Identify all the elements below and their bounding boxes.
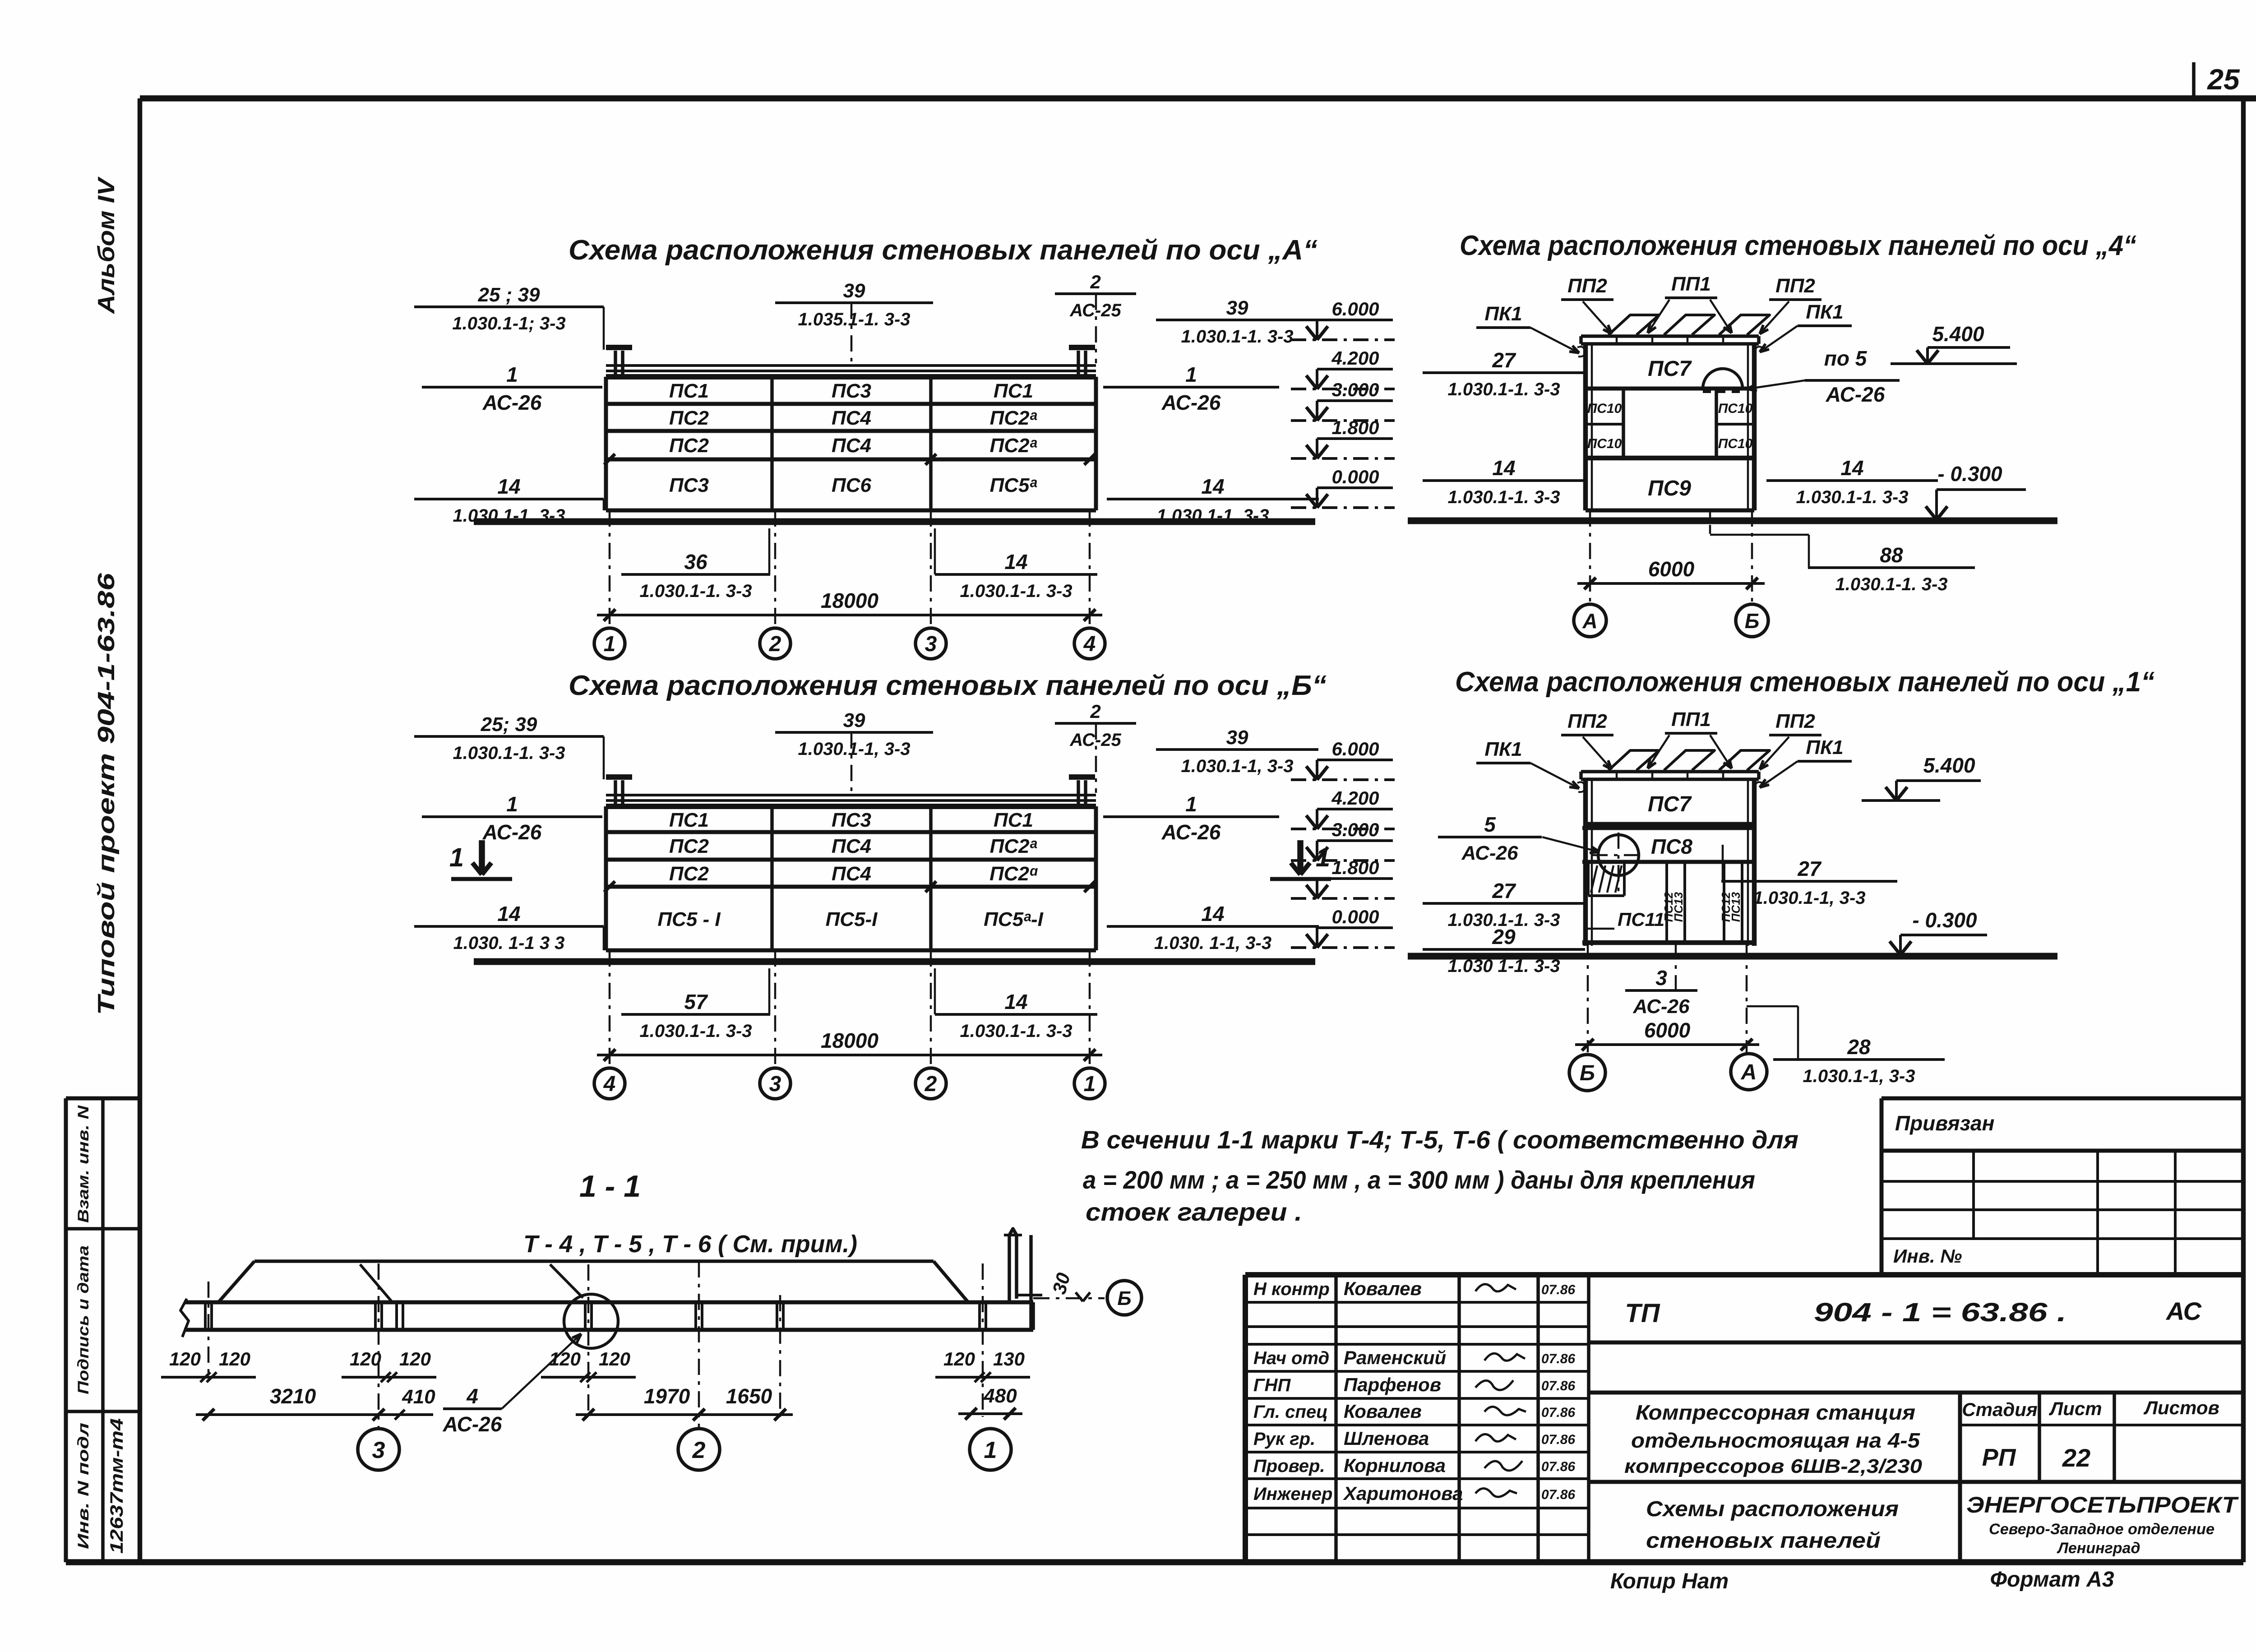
svg-text:А: А xyxy=(1582,609,1597,633)
svg-text:3: 3 xyxy=(372,1437,385,1463)
svg-text:4.200: 4.200 xyxy=(1331,787,1379,809)
svg-text:120: 120 xyxy=(943,1348,975,1370)
svg-text:ПС3: ПС3 xyxy=(832,809,871,831)
svg-text:1.030.1-1. 3-3: 1.030.1-1. 3-3 xyxy=(1181,327,1293,347)
svg-text:14: 14 xyxy=(1201,902,1224,925)
svg-text:120: 120 xyxy=(169,1348,201,1370)
svg-text:Гл. спец: Гл. спец xyxy=(1253,1402,1328,1422)
svg-text:АС-26: АС-26 xyxy=(1633,995,1690,1018)
svg-text:Схема расположения стеновых па: Схема расположения стеновых панелей по о… xyxy=(1460,230,2136,261)
svg-text:Северо-Западное отделение: Северо-Западное отделение xyxy=(1989,1521,2214,1538)
svg-text:Копир Нат: Копир Нат xyxy=(1610,1569,1729,1593)
svg-text:1.030.1-1, 3-3: 1.030.1-1, 3-3 xyxy=(798,739,910,759)
svg-text:120: 120 xyxy=(219,1348,250,1370)
svg-text:ПС3: ПС3 xyxy=(832,380,871,402)
svg-text:1 - 1: 1 - 1 xyxy=(579,1169,641,1203)
svg-text:Типовой проект 904-1-63.86: Типовой проект 904-1-63.86 xyxy=(93,573,120,1015)
svg-text:25; 39: 25; 39 xyxy=(481,713,537,736)
svg-text:4: 4 xyxy=(603,1072,616,1096)
svg-text:07.86: 07.86 xyxy=(1541,1282,1575,1297)
svg-text:ПС4: ПС4 xyxy=(832,863,871,885)
svg-text:14: 14 xyxy=(1201,475,1224,498)
svg-text:1.030.1-1, 3-3: 1.030.1-1, 3-3 xyxy=(1181,756,1293,776)
svg-text:Корнилова: Корнилова xyxy=(1344,1455,1446,1476)
svg-text:1.800: 1.800 xyxy=(1331,417,1379,438)
svg-text:3: 3 xyxy=(769,1072,781,1096)
svg-text:ПС2ᵃ: ПС2ᵃ xyxy=(990,835,1038,857)
svg-text:07.86: 07.86 xyxy=(1541,1487,1575,1502)
svg-text:1.030.1-1. 3-3: 1.030.1-1. 3-3 xyxy=(960,1021,1072,1041)
svg-text:Привязан: Привязан xyxy=(1895,1111,1994,1135)
svg-text:Н контр: Н контр xyxy=(1253,1279,1330,1299)
svg-text:07.86: 07.86 xyxy=(1541,1459,1575,1474)
svg-text:1.800: 1.800 xyxy=(1331,857,1379,878)
svg-text:Инв. N подл: Инв. N подл xyxy=(75,1423,92,1549)
svg-text:5.400: 5.400 xyxy=(1923,754,1975,777)
svg-text:1: 1 xyxy=(1084,1072,1096,1096)
svg-text:1.030.1-1. 3-3: 1.030.1-1. 3-3 xyxy=(453,506,565,526)
svg-text:480: 480 xyxy=(983,1385,1017,1407)
svg-text:1.030.1-1. 3-3: 1.030.1-1. 3-3 xyxy=(639,581,752,601)
svg-text:ПС1: ПС1 xyxy=(994,380,1033,402)
svg-text:1.030 1-1. 3-3: 1.030 1-1. 3-3 xyxy=(1447,956,1560,976)
svg-text:АС-26: АС-26 xyxy=(1826,383,1885,406)
svg-text:ГНП: ГНП xyxy=(1253,1375,1291,1395)
svg-text:36: 36 xyxy=(684,550,707,574)
svg-text:4: 4 xyxy=(1083,632,1096,656)
svg-text:2: 2 xyxy=(925,1072,937,1096)
svg-text:27: 27 xyxy=(1492,879,1516,902)
svg-text:6.000: 6.000 xyxy=(1331,738,1379,759)
svg-text:ПС1: ПС1 xyxy=(669,809,709,831)
svg-text:ПС1: ПС1 xyxy=(669,380,709,402)
svg-text:39: 39 xyxy=(843,709,865,731)
svg-text:ПС6: ПС6 xyxy=(832,474,871,496)
svg-text:ПС4: ПС4 xyxy=(832,435,871,457)
svg-text:ПС7: ПС7 xyxy=(1648,792,1692,816)
svg-text:ТП: ТП xyxy=(1625,1299,1660,1328)
svg-text:1.030.1-1. 3-3: 1.030.1-1. 3-3 xyxy=(1796,487,1908,507)
svg-text:стоек галереи .: стоек галереи . xyxy=(1086,1198,1302,1226)
svg-text:РП: РП xyxy=(1982,1444,2016,1471)
svg-text:ПС5ᵃ: ПС5ᵃ xyxy=(990,474,1038,496)
svg-text:12637тм-т4: 12637тм-т4 xyxy=(107,1418,127,1554)
svg-text:а = 200 мм ; а = 250 мм , а: а = 200 мм ; а = 250 мм , а = 300 мм ) д… xyxy=(1083,1166,1755,1194)
svg-text:ПС2ᵃ: ПС2ᵃ xyxy=(990,407,1038,429)
svg-text:29: 29 xyxy=(1492,925,1516,949)
svg-text:Харитонова: Харитонова xyxy=(1343,1483,1463,1504)
svg-text:ПК1: ПК1 xyxy=(1484,738,1522,760)
svg-text:Ковалев: Ковалев xyxy=(1344,1401,1422,1422)
svg-text:3210: 3210 xyxy=(270,1384,316,1408)
svg-text:Схема расположения стеновых: Схема расположения стеновых панелей по о… xyxy=(569,235,1318,266)
svg-text:ЭНЕРГОСЕТЬПРОЕКТ: ЭНЕРГОСЕТЬПРОЕКТ xyxy=(1966,1492,2239,1518)
svg-text:39: 39 xyxy=(1226,297,1248,319)
svg-text:2: 2 xyxy=(769,632,781,656)
svg-text:ПК1: ПК1 xyxy=(1806,301,1843,323)
svg-text:ПС2ᵃ: ПС2ᵃ xyxy=(990,435,1038,457)
svg-text:18000: 18000 xyxy=(821,589,878,612)
svg-text:Б: Б xyxy=(1745,609,1760,633)
svg-text:3.000: 3.000 xyxy=(1331,379,1379,400)
svg-text:39: 39 xyxy=(1226,727,1248,749)
svg-text:Стадия: Стадия xyxy=(1962,1399,2037,1420)
svg-text:- 0.300: - 0.300 xyxy=(1937,462,2002,486)
svg-text:3: 3 xyxy=(925,632,937,656)
svg-text:ПП2: ПП2 xyxy=(1567,275,1607,297)
svg-text:1.030. 1-1, 3-3: 1.030. 1-1, 3-3 xyxy=(1154,933,1271,953)
svg-text:130: 130 xyxy=(993,1348,1025,1370)
svg-text:АС-26: АС-26 xyxy=(482,820,542,844)
svg-text:ПС1: ПС1 xyxy=(994,809,1033,831)
svg-text:- 0.300: - 0.300 xyxy=(1912,908,1977,932)
svg-text:ПС2: ПС2 xyxy=(669,435,709,457)
svg-text:ПП1: ПП1 xyxy=(1671,273,1711,295)
svg-text:410: 410 xyxy=(402,1386,435,1408)
svg-text:1.030. 1-1 3 3: 1.030. 1-1 3 3 xyxy=(453,933,565,953)
svg-text:120: 120 xyxy=(599,1348,630,1370)
svg-text:14: 14 xyxy=(1840,456,1863,480)
svg-text:25 ; 39: 25 ; 39 xyxy=(478,284,541,306)
svg-text:ПС10: ПС10 xyxy=(1587,401,1622,416)
svg-text:ПК1: ПК1 xyxy=(1806,736,1843,759)
svg-text:Схема расположения стеновых: Схема расположения стеновых панелей по о… xyxy=(1455,666,2154,698)
svg-text:ПС5ᵃ-І: ПС5ᵃ-І xyxy=(984,908,1043,930)
svg-text:ПС5 - І: ПС5 - І xyxy=(657,908,721,930)
svg-text:Подпись и дата: Подпись и дата xyxy=(75,1245,92,1394)
svg-text:АС: АС xyxy=(2165,1297,2202,1325)
svg-text:88: 88 xyxy=(1880,543,1903,567)
svg-text:ПС7: ПС7 xyxy=(1648,357,1692,381)
svg-text:АС-26: АС-26 xyxy=(1461,842,1518,864)
svg-text:1: 1 xyxy=(449,843,464,872)
svg-text:Т - 4 , Т - 5 , Т - 6 ( См.: Т - 4 , Т - 5 , Т - 6 ( См. прим.) xyxy=(523,1231,857,1258)
svg-text:ПС13: ПС13 xyxy=(1729,892,1743,922)
svg-text:1650: 1650 xyxy=(726,1384,772,1408)
svg-text:904 - 1 = 63.86 .: 904 - 1 = 63.86 . xyxy=(1814,1298,2066,1327)
svg-text:ПС13: ПС13 xyxy=(1672,892,1685,922)
svg-text:0.000: 0.000 xyxy=(1331,466,1379,487)
svg-text:14: 14 xyxy=(497,902,520,925)
svg-text:1.030.1-1. 3-3: 1.030.1-1. 3-3 xyxy=(453,743,565,763)
svg-text:1.030.1-1. 3-3: 1.030.1-1. 3-3 xyxy=(639,1021,752,1041)
svg-text:ПК1: ПК1 xyxy=(1484,303,1522,325)
svg-text:ПП1: ПП1 xyxy=(1671,708,1711,731)
svg-text:ПС10: ПС10 xyxy=(1718,401,1753,416)
svg-text:1: 1 xyxy=(506,363,518,386)
svg-text:ПС4: ПС4 xyxy=(832,407,871,429)
svg-text:1.030.1-1; 3-3: 1.030.1-1; 3-3 xyxy=(452,314,565,333)
svg-text:Формат А3: Формат А3 xyxy=(1990,1568,2114,1592)
svg-text:07.86: 07.86 xyxy=(1541,1432,1575,1447)
svg-text:Лист: Лист xyxy=(2048,1398,2102,1419)
svg-text:ПС3: ПС3 xyxy=(669,474,709,496)
svg-text:Инженер: Инженер xyxy=(1253,1484,1332,1504)
svg-text:1.030.1-1, 3-3: 1.030.1-1, 3-3 xyxy=(1803,1066,1915,1086)
svg-text:ПП2: ПП2 xyxy=(1567,710,1607,732)
svg-text:ПС2: ПС2 xyxy=(669,407,709,429)
svg-text:АС-26: АС-26 xyxy=(1161,391,1221,414)
svg-text:ПС2ᵅ: ПС2ᵅ xyxy=(989,863,1038,885)
svg-text:3: 3 xyxy=(1655,966,1667,990)
svg-text:Компрессорная станция: Компрессорная станция xyxy=(1636,1401,1915,1424)
svg-text:1: 1 xyxy=(984,1437,997,1463)
svg-text:ПС2: ПС2 xyxy=(669,863,709,885)
svg-text:ПС5-І: ПС5-І xyxy=(826,908,878,930)
svg-text:2: 2 xyxy=(1090,701,1100,722)
svg-text:Б: Б xyxy=(1117,1287,1131,1310)
svg-text:Альбом ІV: Альбом ІV xyxy=(93,176,120,315)
svg-text:Взам. инв. N: Взам. инв. N xyxy=(75,1105,92,1223)
svg-text:1: 1 xyxy=(1185,363,1197,386)
svg-text:0.000: 0.000 xyxy=(1331,906,1379,927)
svg-text:АС-26: АС-26 xyxy=(482,391,542,414)
svg-text:А: А xyxy=(1741,1060,1757,1084)
svg-text:5: 5 xyxy=(1484,813,1496,836)
svg-text:1: 1 xyxy=(1185,792,1197,816)
svg-text:1.030.1-1. 3-3: 1.030.1-1. 3-3 xyxy=(1447,487,1560,507)
svg-text:22: 22 xyxy=(2062,1444,2090,1472)
svg-text:07.86: 07.86 xyxy=(1541,1405,1575,1420)
svg-text:1.035.1-1. 3-3: 1.035.1-1. 3-3 xyxy=(798,310,910,329)
svg-text:Рук гр.: Рук гр. xyxy=(1253,1429,1315,1449)
svg-text:ПП2: ПП2 xyxy=(1775,275,1815,297)
svg-text:Раменский: Раменский xyxy=(1344,1347,1446,1368)
svg-text:4.200: 4.200 xyxy=(1331,347,1379,369)
svg-text:Схемы расположения: Схемы расположения xyxy=(1646,1497,1899,1521)
svg-text:Инв. №: Инв. № xyxy=(1893,1245,1962,1267)
svg-text:В сечении 1-1 марки Т-4; Т-: В сечении 1-1 марки Т-4; Т-5, Т-6 ( соот… xyxy=(1081,1125,1798,1154)
svg-text:120: 120 xyxy=(399,1348,431,1370)
svg-text:14: 14 xyxy=(497,475,520,498)
svg-text:4: 4 xyxy=(466,1384,478,1408)
svg-text:28: 28 xyxy=(1847,1035,1871,1059)
svg-text:1: 1 xyxy=(604,632,616,656)
svg-text:Ковалев: Ковалев xyxy=(1344,1278,1422,1299)
svg-text:39: 39 xyxy=(843,280,865,302)
svg-text:ПС8: ПС8 xyxy=(1651,835,1692,858)
svg-text:1970: 1970 xyxy=(644,1384,690,1408)
svg-text:АС-26: АС-26 xyxy=(443,1412,502,1436)
svg-text:2: 2 xyxy=(1090,271,1100,292)
svg-text:по 5: по 5 xyxy=(1824,347,1868,370)
svg-text:6000: 6000 xyxy=(1644,1018,1691,1042)
svg-text:25: 25 xyxy=(2207,63,2240,96)
svg-text:1.030 1-1, 3-3: 1.030 1-1, 3-3 xyxy=(1156,506,1269,526)
svg-text:Схема расположения стеновых: Схема расположения стеновых панелей по о… xyxy=(569,670,1327,701)
svg-text:АС-26: АС-26 xyxy=(1161,820,1221,844)
svg-text:ПС9: ПС9 xyxy=(1648,477,1691,500)
svg-text:Листов: Листов xyxy=(2143,1397,2219,1418)
svg-text:ПП2: ПП2 xyxy=(1775,710,1815,732)
svg-text:ПС11: ПС11 xyxy=(1618,909,1664,930)
svg-text:07.86: 07.86 xyxy=(1541,1351,1575,1366)
svg-text:Парфенов: Парфенов xyxy=(1344,1374,1441,1395)
svg-text:2: 2 xyxy=(692,1437,706,1463)
svg-text:1.030.1-1. 3-3: 1.030.1-1. 3-3 xyxy=(1835,574,1947,594)
svg-text:1.030.1-1, 3-3: 1.030.1-1, 3-3 xyxy=(1753,888,1865,908)
svg-text:1: 1 xyxy=(506,792,518,816)
svg-text:ПС10: ПС10 xyxy=(1718,436,1753,451)
svg-text:1.030.1-1. 3-3: 1.030.1-1. 3-3 xyxy=(1447,379,1560,399)
svg-text:3.000: 3.000 xyxy=(1331,819,1379,840)
svg-text:57: 57 xyxy=(684,990,708,1013)
svg-text:компрессоров 6ШВ-2,3/230: компрессоров 6ШВ-2,3/230 xyxy=(1624,1455,1923,1477)
svg-text:стеновых панелей: стеновых панелей xyxy=(1646,1529,1881,1553)
svg-text:ПС2: ПС2 xyxy=(669,835,709,857)
svg-text:Б: Б xyxy=(1580,1061,1595,1085)
svg-text:Шленова: Шленова xyxy=(1344,1428,1429,1449)
svg-text:ПС4: ПС4 xyxy=(832,835,871,857)
svg-text:14: 14 xyxy=(1004,990,1027,1013)
svg-text:18000: 18000 xyxy=(821,1029,878,1052)
svg-text:6.000: 6.000 xyxy=(1331,298,1379,319)
svg-text:07.86: 07.86 xyxy=(1541,1379,1575,1393)
svg-text:1.030.1-1. 3-3: 1.030.1-1. 3-3 xyxy=(960,581,1072,601)
svg-text:5.400: 5.400 xyxy=(1932,322,1984,346)
svg-text:ПС10: ПС10 xyxy=(1587,436,1622,451)
svg-text:Ленинград: Ленинград xyxy=(2057,1540,2140,1557)
svg-text:6000: 6000 xyxy=(1648,557,1695,581)
svg-text:14: 14 xyxy=(1492,456,1515,480)
svg-text:120: 120 xyxy=(350,1348,381,1370)
svg-text:отдельностоящая на 4-5: отдельностоящая на 4-5 xyxy=(1631,1429,1921,1452)
svg-text:27: 27 xyxy=(1492,348,1516,372)
svg-text:14: 14 xyxy=(1004,550,1027,574)
svg-text:27: 27 xyxy=(1797,857,1822,880)
svg-text:Провер.: Провер. xyxy=(1253,1456,1325,1476)
svg-text:Нач отд: Нач отд xyxy=(1253,1348,1329,1368)
